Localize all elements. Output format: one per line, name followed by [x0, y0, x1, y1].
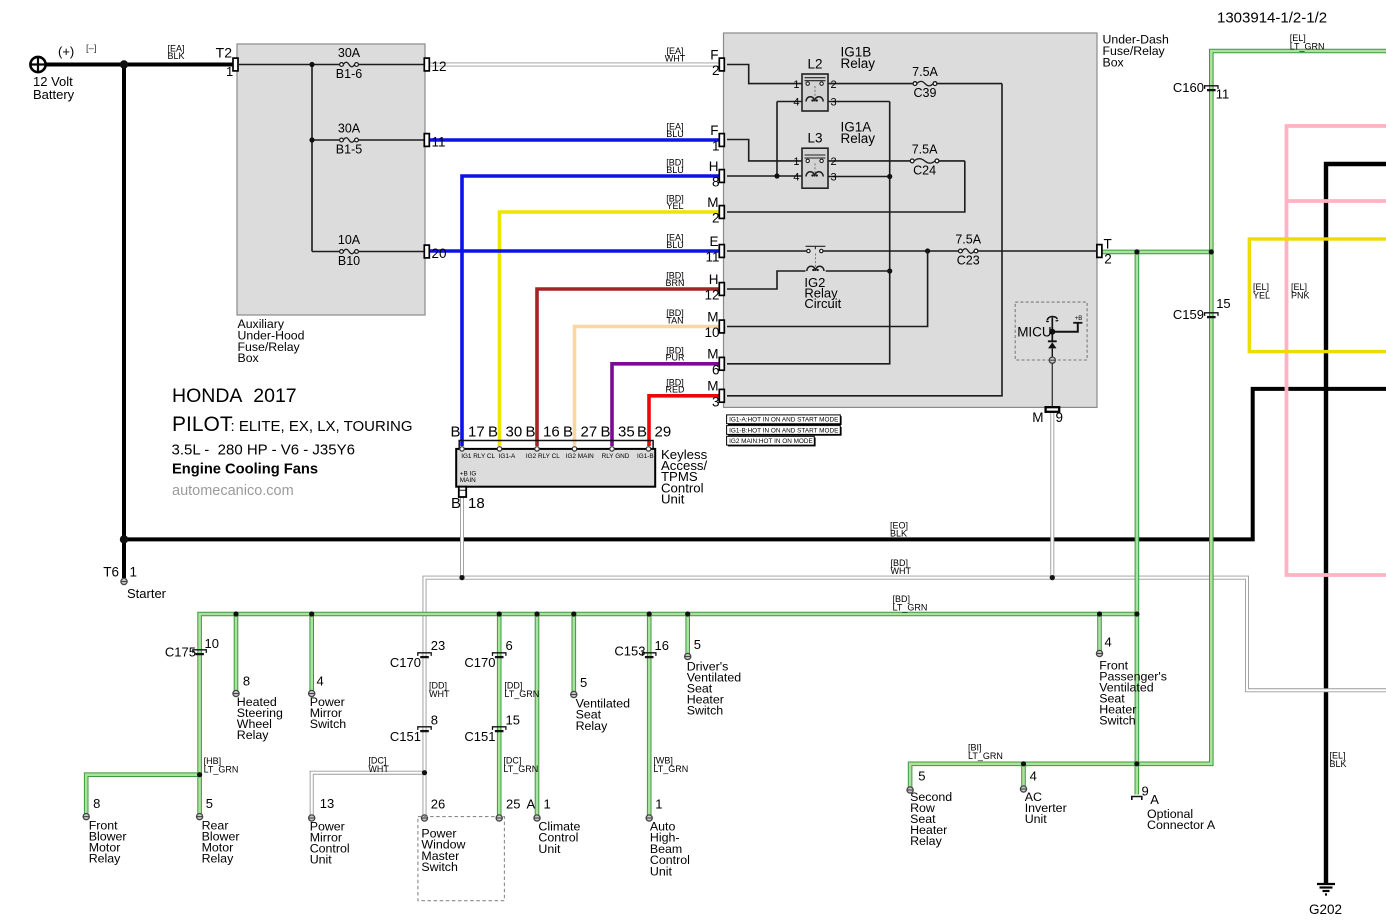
svg-text:1: 1	[793, 156, 799, 168]
svg-text:T2: T2	[216, 45, 233, 61]
svg-text:B: B	[526, 424, 536, 441]
svg-text:LT_GRN: LT_GRN	[653, 764, 688, 774]
svg-text:IG2 MAIN: IG2 MAIN	[566, 453, 594, 460]
svg-text:BLU: BLU	[666, 240, 684, 250]
svg-text:2: 2	[1104, 252, 1112, 267]
svg-text:Unit: Unit	[661, 491, 685, 506]
svg-text:[–]: [–]	[86, 43, 97, 54]
svg-text:F: F	[710, 47, 718, 62]
svg-text:1303914-1/2-1/2: 1303914-1/2-1/2	[1217, 10, 1327, 27]
svg-text:C159: C159	[1173, 307, 1204, 322]
svg-text:5: 5	[694, 637, 701, 652]
svg-text:MICU: MICU	[1017, 324, 1051, 339]
svg-text:F: F	[710, 123, 718, 138]
svg-text:30A: 30A	[338, 122, 361, 136]
svg-text:C23: C23	[957, 254, 980, 268]
svg-text:7.5A: 7.5A	[912, 65, 938, 79]
svg-text:2: 2	[831, 156, 837, 168]
svg-text:B: B	[488, 424, 498, 441]
svg-text:1: 1	[793, 79, 799, 91]
svg-text:HONDA 2017: HONDA 2017	[172, 385, 297, 407]
svg-text:LT_GRN: LT_GRN	[504, 689, 539, 699]
svg-text:BLK: BLK	[167, 51, 184, 61]
svg-text:IG1-B: IG1-B	[637, 453, 654, 460]
svg-text:4: 4	[1105, 635, 1112, 650]
svg-text:Relay: Relay	[89, 852, 121, 866]
svg-text:4: 4	[317, 674, 324, 689]
svg-text:4: 4	[793, 171, 799, 183]
svg-text:16: 16	[543, 424, 560, 441]
svg-text:B: B	[451, 424, 461, 441]
svg-text:4: 4	[793, 96, 799, 108]
svg-text:M: M	[707, 195, 718, 210]
svg-text:9: 9	[1142, 784, 1149, 799]
svg-text:H: H	[709, 159, 719, 174]
svg-text:11: 11	[1216, 87, 1230, 102]
svg-text:1: 1	[712, 139, 720, 154]
svg-text:B1-6: B1-6	[336, 67, 362, 81]
svg-text:H: H	[709, 272, 719, 287]
svg-text:: ELITE, EX, LX, TOURING: : ELITE, EX, LX, TOURING	[231, 418, 413, 435]
svg-text:Relay: Relay	[841, 56, 876, 71]
svg-text:B10: B10	[338, 254, 360, 268]
svg-text:Switch: Switch	[1099, 714, 1136, 728]
svg-text:6: 6	[712, 363, 720, 378]
svg-text:M: M	[707, 379, 718, 394]
svg-text:8: 8	[712, 175, 720, 190]
svg-text:RED: RED	[665, 385, 685, 395]
svg-text:8: 8	[93, 796, 100, 811]
svg-text:M: M	[1032, 410, 1043, 425]
svg-text:25: 25	[506, 797, 520, 812]
svg-text:B: B	[563, 424, 573, 441]
svg-text:E: E	[709, 234, 718, 249]
svg-text:L2: L2	[807, 57, 822, 72]
svg-text:1: 1	[130, 565, 138, 580]
svg-text:LT_GRN: LT_GRN	[893, 603, 928, 613]
svg-text:Unit: Unit	[310, 853, 333, 867]
svg-text:PNK: PNK	[1291, 291, 1310, 301]
svg-text:B: B	[601, 424, 611, 441]
svg-text:BLK: BLK	[890, 529, 907, 539]
svg-text:Switch: Switch	[421, 860, 458, 874]
svg-text:C151: C151	[464, 729, 495, 744]
svg-text:B: B	[637, 424, 647, 441]
svg-text:C160: C160	[1173, 80, 1204, 95]
svg-text:6: 6	[506, 638, 513, 653]
svg-text:2: 2	[712, 63, 720, 78]
svg-text:Switch: Switch	[687, 704, 724, 718]
svg-text:WHT: WHT	[368, 764, 389, 774]
svg-text:WHT: WHT	[429, 689, 450, 699]
svg-text:T: T	[1104, 237, 1112, 252]
svg-text:20: 20	[432, 246, 447, 261]
svg-text:LT_GRN: LT_GRN	[503, 764, 538, 774]
svg-text:Engine Cooling Fans: Engine Cooling Fans	[172, 462, 318, 478]
svg-text:8: 8	[243, 674, 250, 689]
svg-text:4: 4	[1030, 769, 1037, 784]
svg-text:C24: C24	[913, 163, 936, 177]
svg-text:Relay: Relay	[910, 834, 942, 848]
svg-text:Box: Box	[238, 351, 260, 365]
svg-text:27: 27	[581, 424, 598, 441]
svg-text:C151: C151	[390, 729, 421, 744]
svg-text:IG1-B:HOT IN ON AND START MODE: IG1-B:HOT IN ON AND START MODE	[729, 427, 838, 434]
svg-text:8: 8	[431, 713, 438, 728]
svg-text:IG2 RLY CL: IG2 RLY CL	[526, 453, 560, 460]
svg-text:Relay: Relay	[237, 728, 269, 742]
svg-text:3: 3	[712, 395, 720, 410]
svg-text:C39: C39	[914, 86, 937, 100]
svg-text:12: 12	[704, 288, 719, 303]
svg-text:YEL: YEL	[1253, 291, 1270, 301]
svg-text:C170: C170	[464, 655, 495, 670]
svg-text:11: 11	[705, 250, 719, 265]
svg-text:C170: C170	[390, 655, 421, 670]
svg-text:1: 1	[655, 797, 662, 812]
svg-text:18: 18	[468, 495, 485, 512]
svg-text:G202: G202	[1309, 902, 1342, 917]
svg-text:RLY GND: RLY GND	[602, 453, 630, 460]
svg-text:29: 29	[655, 424, 672, 441]
svg-text:30A: 30A	[338, 46, 361, 60]
svg-text:13: 13	[320, 796, 334, 811]
svg-text:3.5L - 280 HP - V6 - J35Y6: 3.5L - 280 HP - V6 - J35Y6	[172, 442, 355, 459]
svg-text:2: 2	[712, 211, 720, 226]
svg-text:10A: 10A	[338, 233, 361, 247]
svg-text:Unit: Unit	[650, 864, 673, 878]
svg-text:M: M	[707, 309, 718, 324]
svg-text:Unit: Unit	[538, 842, 561, 856]
svg-text:10: 10	[205, 636, 219, 651]
svg-text:C175: C175	[165, 645, 196, 660]
svg-text:26: 26	[431, 797, 445, 812]
svg-text:+B: +B	[1075, 316, 1083, 322]
svg-text:B1-5: B1-5	[336, 143, 362, 157]
svg-text:WHT: WHT	[665, 53, 686, 63]
svg-text:3: 3	[831, 171, 837, 183]
svg-text:15: 15	[1216, 296, 1230, 311]
svg-text:7.5A: 7.5A	[912, 142, 938, 156]
svg-text:YEL: YEL	[666, 201, 683, 211]
svg-text:Relay: Relay	[202, 852, 234, 866]
svg-text:3: 3	[831, 96, 837, 108]
svg-text:IG2 MAIN:HOT IN ON MODE: IG2 MAIN:HOT IN ON MODE	[729, 438, 813, 445]
svg-text:C153: C153	[614, 644, 645, 659]
svg-text:Relay: Relay	[841, 131, 876, 146]
svg-text:11: 11	[432, 135, 446, 150]
svg-text:TAN: TAN	[666, 315, 683, 325]
svg-text:17: 17	[468, 424, 485, 441]
svg-text:Battery: Battery	[33, 87, 75, 102]
svg-text:LT_GRN: LT_GRN	[1290, 42, 1325, 52]
svg-text:automecanico.com: automecanico.com	[172, 483, 294, 499]
svg-text:PUR: PUR	[665, 353, 685, 363]
svg-text:15: 15	[506, 713, 520, 728]
svg-text:BLU: BLU	[666, 129, 684, 139]
svg-text:Connector A: Connector A	[1147, 818, 1216, 832]
svg-text:M: M	[707, 347, 718, 362]
svg-text:2: 2	[831, 79, 837, 91]
svg-text:5: 5	[918, 769, 925, 784]
svg-text:1: 1	[226, 64, 233, 79]
svg-text:23: 23	[431, 638, 445, 653]
svg-text:A: A	[527, 797, 536, 812]
svg-text:35: 35	[618, 424, 635, 441]
svg-text:Switch: Switch	[310, 717, 347, 731]
svg-text:Unit: Unit	[1025, 812, 1048, 826]
svg-text:LT_GRN: LT_GRN	[968, 751, 1003, 761]
svg-text:7.5A: 7.5A	[955, 233, 981, 247]
svg-text:30: 30	[506, 424, 523, 441]
svg-text:IG1-A: IG1-A	[499, 453, 516, 460]
svg-text:T6: T6	[103, 565, 119, 580]
svg-text:5: 5	[206, 796, 213, 811]
svg-text:MAIN: MAIN	[460, 477, 476, 484]
svg-text:Circuit: Circuit	[804, 296, 841, 311]
svg-text:B: B	[451, 495, 461, 512]
svg-text:PILOT: PILOT	[172, 413, 233, 436]
svg-text:(+): (+)	[58, 44, 74, 59]
svg-text:Relay: Relay	[576, 719, 608, 733]
svg-text:5: 5	[580, 675, 587, 690]
svg-text:IG1 RLY CL: IG1 RLY CL	[461, 453, 495, 460]
svg-text:BRN: BRN	[665, 278, 684, 288]
svg-text:A: A	[1150, 792, 1159, 807]
svg-text:10: 10	[704, 325, 719, 340]
svg-text:12: 12	[432, 59, 447, 74]
svg-text:9: 9	[1056, 410, 1064, 425]
svg-text:IG1-A:HOT IN ON AND START MODE: IG1-A:HOT IN ON AND START MODE	[729, 417, 838, 424]
svg-text:Box: Box	[1103, 55, 1125, 69]
svg-text:BLU: BLU	[666, 165, 684, 175]
svg-text:BLK: BLK	[1330, 759, 1347, 769]
svg-text:LT_GRN: LT_GRN	[204, 765, 239, 775]
svg-text:1: 1	[544, 797, 551, 812]
svg-text:Starter: Starter	[127, 586, 167, 601]
svg-text:16: 16	[655, 638, 669, 653]
svg-text:WHT: WHT	[891, 566, 912, 576]
svg-text:L3: L3	[807, 131, 822, 146]
